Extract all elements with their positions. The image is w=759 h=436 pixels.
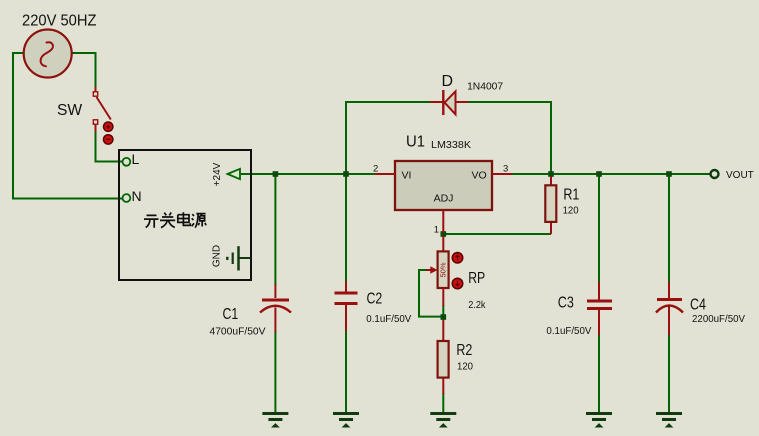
PSU box 开关电源 [119, 150, 251, 280]
ground under C1 [262, 414, 288, 428]
svg-text:0.1uF/50V: 0.1uF/50V [366, 313, 411, 325]
svg-text:C4: C4 [690, 297, 706, 314]
capacitor C4 (polarized) [656, 282, 683, 335]
wire switch to L [96, 131, 123, 162]
wire C4 lower [668, 334, 670, 412]
wire C1 lower [274, 331, 276, 412]
svg-text:C1: C1 [223, 306, 239, 323]
junction node C3/main [596, 171, 602, 177]
RP adjust dot down [452, 278, 462, 288]
capacitor C3 [587, 282, 612, 335]
wire ADJ node to R1 bottom [443, 233, 551, 235]
svg-text:VI: VI [402, 169, 412, 181]
svg-text:D: D [442, 73, 454, 90]
AC source V1 body [24, 30, 72, 78]
junction node RP bottom [441, 314, 447, 320]
ground under C3 [586, 414, 612, 428]
label 开关电源 (hand-drawn strokes) [144, 212, 206, 227]
char 电 [178, 212, 191, 225]
svg-text:N: N [132, 188, 142, 204]
pin VO stub [492, 173, 512, 175]
svg-text:ADJ: ADJ [434, 193, 454, 205]
GND pin symbol (sideways ground) [227, 246, 250, 270]
RP adjust dot up [452, 253, 462, 263]
char 关 [160, 212, 175, 227]
switch SW [93, 87, 111, 132]
svg-text:3: 3 [503, 164, 508, 175]
svg-text:2: 2 [373, 164, 378, 175]
junction node R1/diode/main [548, 171, 554, 177]
terminal L [123, 158, 131, 166]
svg-text:L: L [132, 151, 140, 167]
char 源 [192, 214, 206, 228]
pin ADJ stub [442, 210, 444, 233]
svg-text:R2: R2 [456, 342, 472, 359]
wire C2 lower [345, 330, 347, 412]
char 开 [144, 215, 159, 227]
wire C3 lower [598, 334, 600, 412]
wire diode right branch [468, 102, 551, 174]
wire RP bottom segment [442, 305, 444, 320]
terminal N [123, 194, 131, 202]
svg-text:C2: C2 [367, 291, 383, 308]
capacitor C2 [335, 281, 358, 331]
wire C1 upper [274, 174, 276, 285]
svg-text:SW: SW [57, 102, 83, 119]
svg-text:VOUT: VOUT [726, 170, 754, 181]
svg-text:VO: VO [472, 169, 487, 181]
svg-text:2200uF/50V: 2200uF/50V [692, 313, 745, 325]
junction node C1/main [273, 171, 279, 177]
diode D [430, 90, 468, 115]
svg-text:U1: U1 [406, 134, 425, 151]
svg-text:4700uF/50V: 4700uF/50V [210, 326, 266, 338]
resistor R2 [438, 320, 449, 394]
svg-text:120: 120 [457, 361, 473, 373]
terminal VOUT [711, 170, 719, 178]
wire C3 upper [598, 174, 600, 282]
wire R2 to ground [442, 393, 444, 412]
pin VI stub [375, 173, 395, 175]
+24V output arrow [228, 169, 241, 179]
switch toggle dot upper [104, 122, 113, 131]
svg-text:+24V: +24V [212, 162, 223, 186]
svg-text:220V 50HZ: 220V 50HZ [22, 13, 97, 30]
ground under R2 [430, 414, 456, 428]
svg-text:120: 120 [563, 205, 579, 217]
switch toggle dot lower [104, 135, 113, 144]
svg-text:1: 1 [434, 225, 439, 236]
wire C4 upper [668, 174, 670, 282]
svg-text:GND: GND [212, 245, 223, 267]
wire RP wiper [419, 270, 443, 317]
svg-text:2.2k: 2.2k [468, 299, 486, 311]
op-amp U1 LM338K body [395, 161, 492, 210]
svg-text:0.1uF/50V: 0.1uF/50V [546, 325, 591, 337]
svg-text:1N4007: 1N4007 [467, 81, 503, 93]
wire VO rail to VOUT [511, 173, 710, 175]
wire diode left branch [346, 102, 431, 174]
svg-text:C3: C3 [558, 295, 574, 312]
ground under C4 [656, 414, 682, 428]
wire left rail from source to N [13, 53, 122, 199]
svg-text:R1: R1 [563, 187, 579, 204]
svg-text:LM338K: LM338K [431, 139, 471, 151]
ground under C2 [333, 414, 359, 428]
svg-text:50%: 50% [439, 262, 448, 277]
junction node C4/main [666, 171, 672, 177]
resistor R1 [545, 176, 556, 234]
svg-text:RP: RP [468, 270, 485, 287]
junction node ADJ [441, 231, 447, 237]
wire C2 upper [345, 174, 347, 281]
capacitor C1 (polarized) [260, 284, 291, 332]
wire source to switch [71, 53, 96, 89]
potentiometer RP body [426, 236, 449, 306]
wire main +24V rail [240, 173, 376, 175]
junction node C2/main [343, 171, 349, 177]
